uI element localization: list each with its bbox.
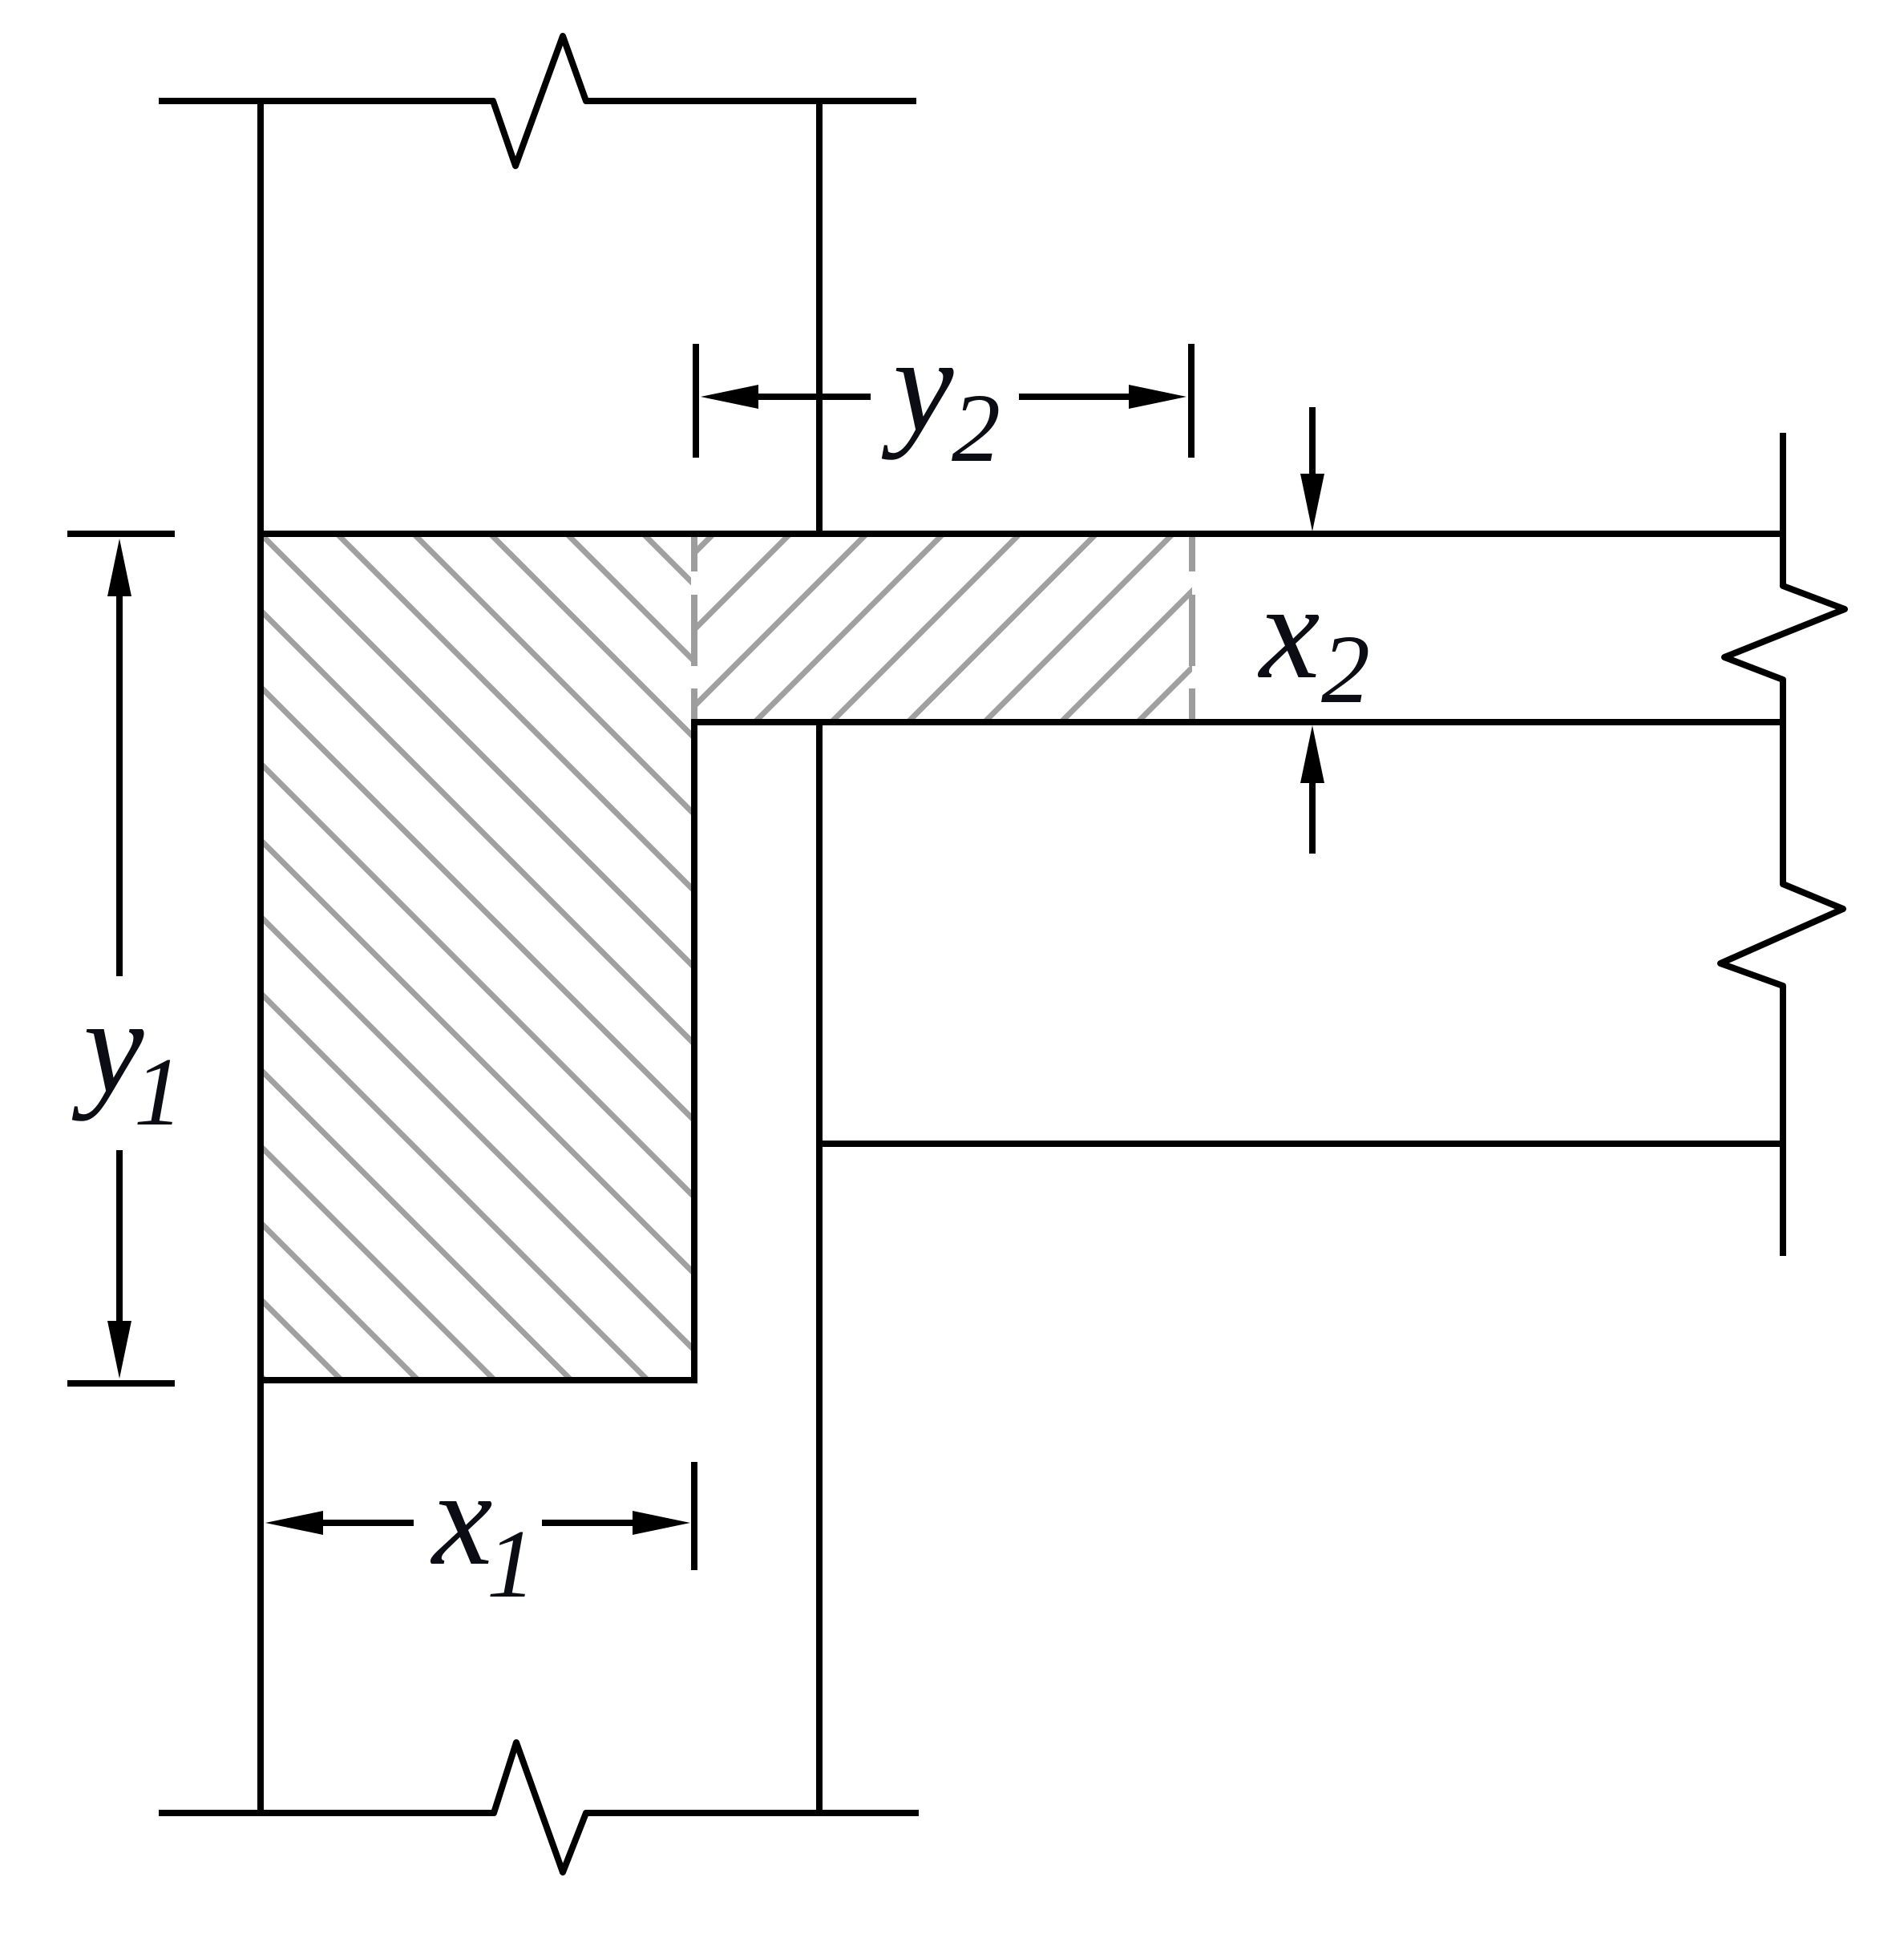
wire hatched-area bottom edge <box>257 1377 697 1383</box>
dimension y2 left tick <box>693 344 699 458</box>
dimension y1 lower arrow <box>116 1150 123 1324</box>
svg-text:x: x <box>1257 556 1320 707</box>
bottom cut line with break <box>159 1742 919 1872</box>
right cut line with two breaks <box>1720 433 1845 1256</box>
wire column right edge below slab <box>816 720 823 1816</box>
dimension y1 top tick <box>67 531 175 537</box>
svg-text:2: 2 <box>952 374 1001 482</box>
svg-text:1: 1 <box>134 1038 183 1146</box>
svg-text:1: 1 <box>487 1510 536 1618</box>
dimension y2 right arrow <box>1019 394 1130 400</box>
dimension y2 left arrow <box>757 394 871 400</box>
dimension x1 right tick <box>691 1462 697 1570</box>
dashed gray line at column face x=866 <box>691 532 697 721</box>
dimension y2 right tick <box>1188 344 1195 458</box>
wire column left edge <box>257 98 264 1816</box>
dimension x2 lower arrow <box>1309 778 1316 854</box>
dimension y1 upper arrow <box>116 593 123 976</box>
wire slab top edge <box>257 531 1786 537</box>
wire beam bottom edge <box>816 1141 1786 1147</box>
svg-text:2: 2 <box>1321 616 1370 724</box>
dimension y1 bottom tick <box>67 1380 175 1387</box>
hatch region A (column, backslash lines) <box>0 529 1495 1385</box>
dimension x1 left arrow <box>321 1520 414 1526</box>
top cut line with break <box>159 36 916 166</box>
hatch region B (slab strip, forward-slash lines) <box>522 529 1331 725</box>
dimension x2 upper arrow <box>1309 407 1316 478</box>
dimension x1 right arrow <box>542 1520 634 1526</box>
dashed gray line at x=1487 (end of slab hatch) <box>1189 532 1195 721</box>
wire hatched-area right edge <box>691 720 697 1383</box>
svg-text:x: x <box>430 1443 492 1593</box>
wire column right edge above slab <box>816 98 823 537</box>
wire slab bottom edge <box>691 719 1786 725</box>
